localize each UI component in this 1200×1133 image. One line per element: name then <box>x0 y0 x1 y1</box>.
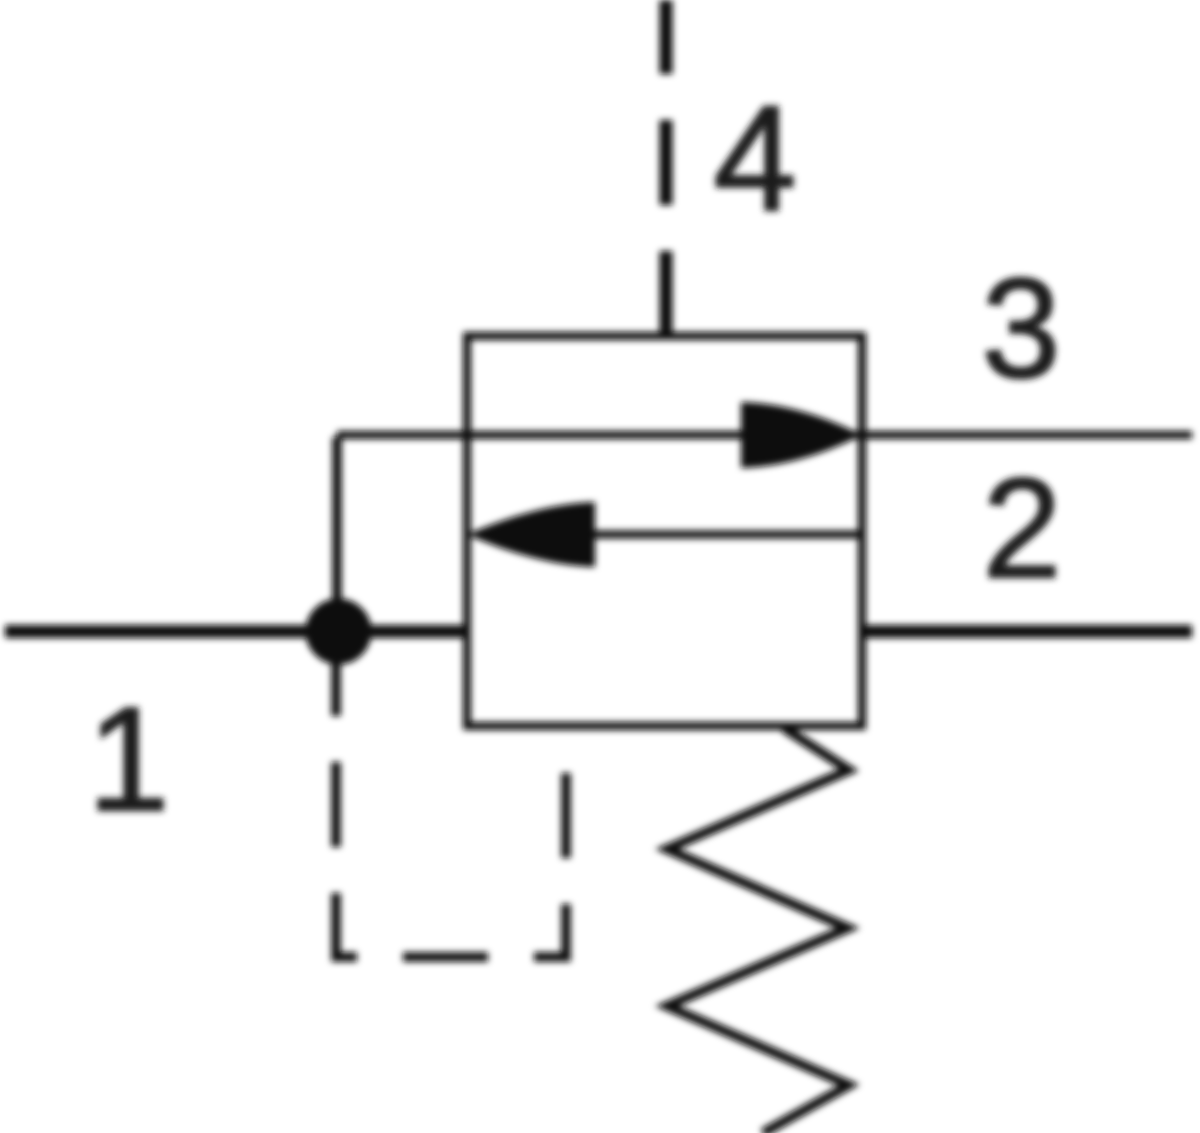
wire: branch from node up to port 3 line <box>332 437 342 631</box>
node: junction dot on port 1 <box>310 603 368 661</box>
arrow: flow direction right (to port 3) <box>741 402 862 468</box>
wire: internal flow line (port 2 to port 3 path) <box>560 531 862 539</box>
wire: port 3 line <box>337 431 1192 439</box>
wire: pilot port 4 dashed line <box>660 0 673 336</box>
wire: port 1 line <box>5 625 467 638</box>
svg-text:1: 1 <box>87 677 169 842</box>
svg-text:3: 3 <box>982 249 1061 408</box>
svg-text:2: 2 <box>983 449 1062 608</box>
wire: port 2 line <box>862 625 1192 638</box>
valve body box <box>467 336 862 726</box>
spring <box>667 728 849 1133</box>
svg-text:4: 4 <box>713 74 796 242</box>
wire: dashed pilot line from node to box bottom <box>336 631 566 957</box>
arrow: flow direction left (to port 2) <box>467 502 595 567</box>
